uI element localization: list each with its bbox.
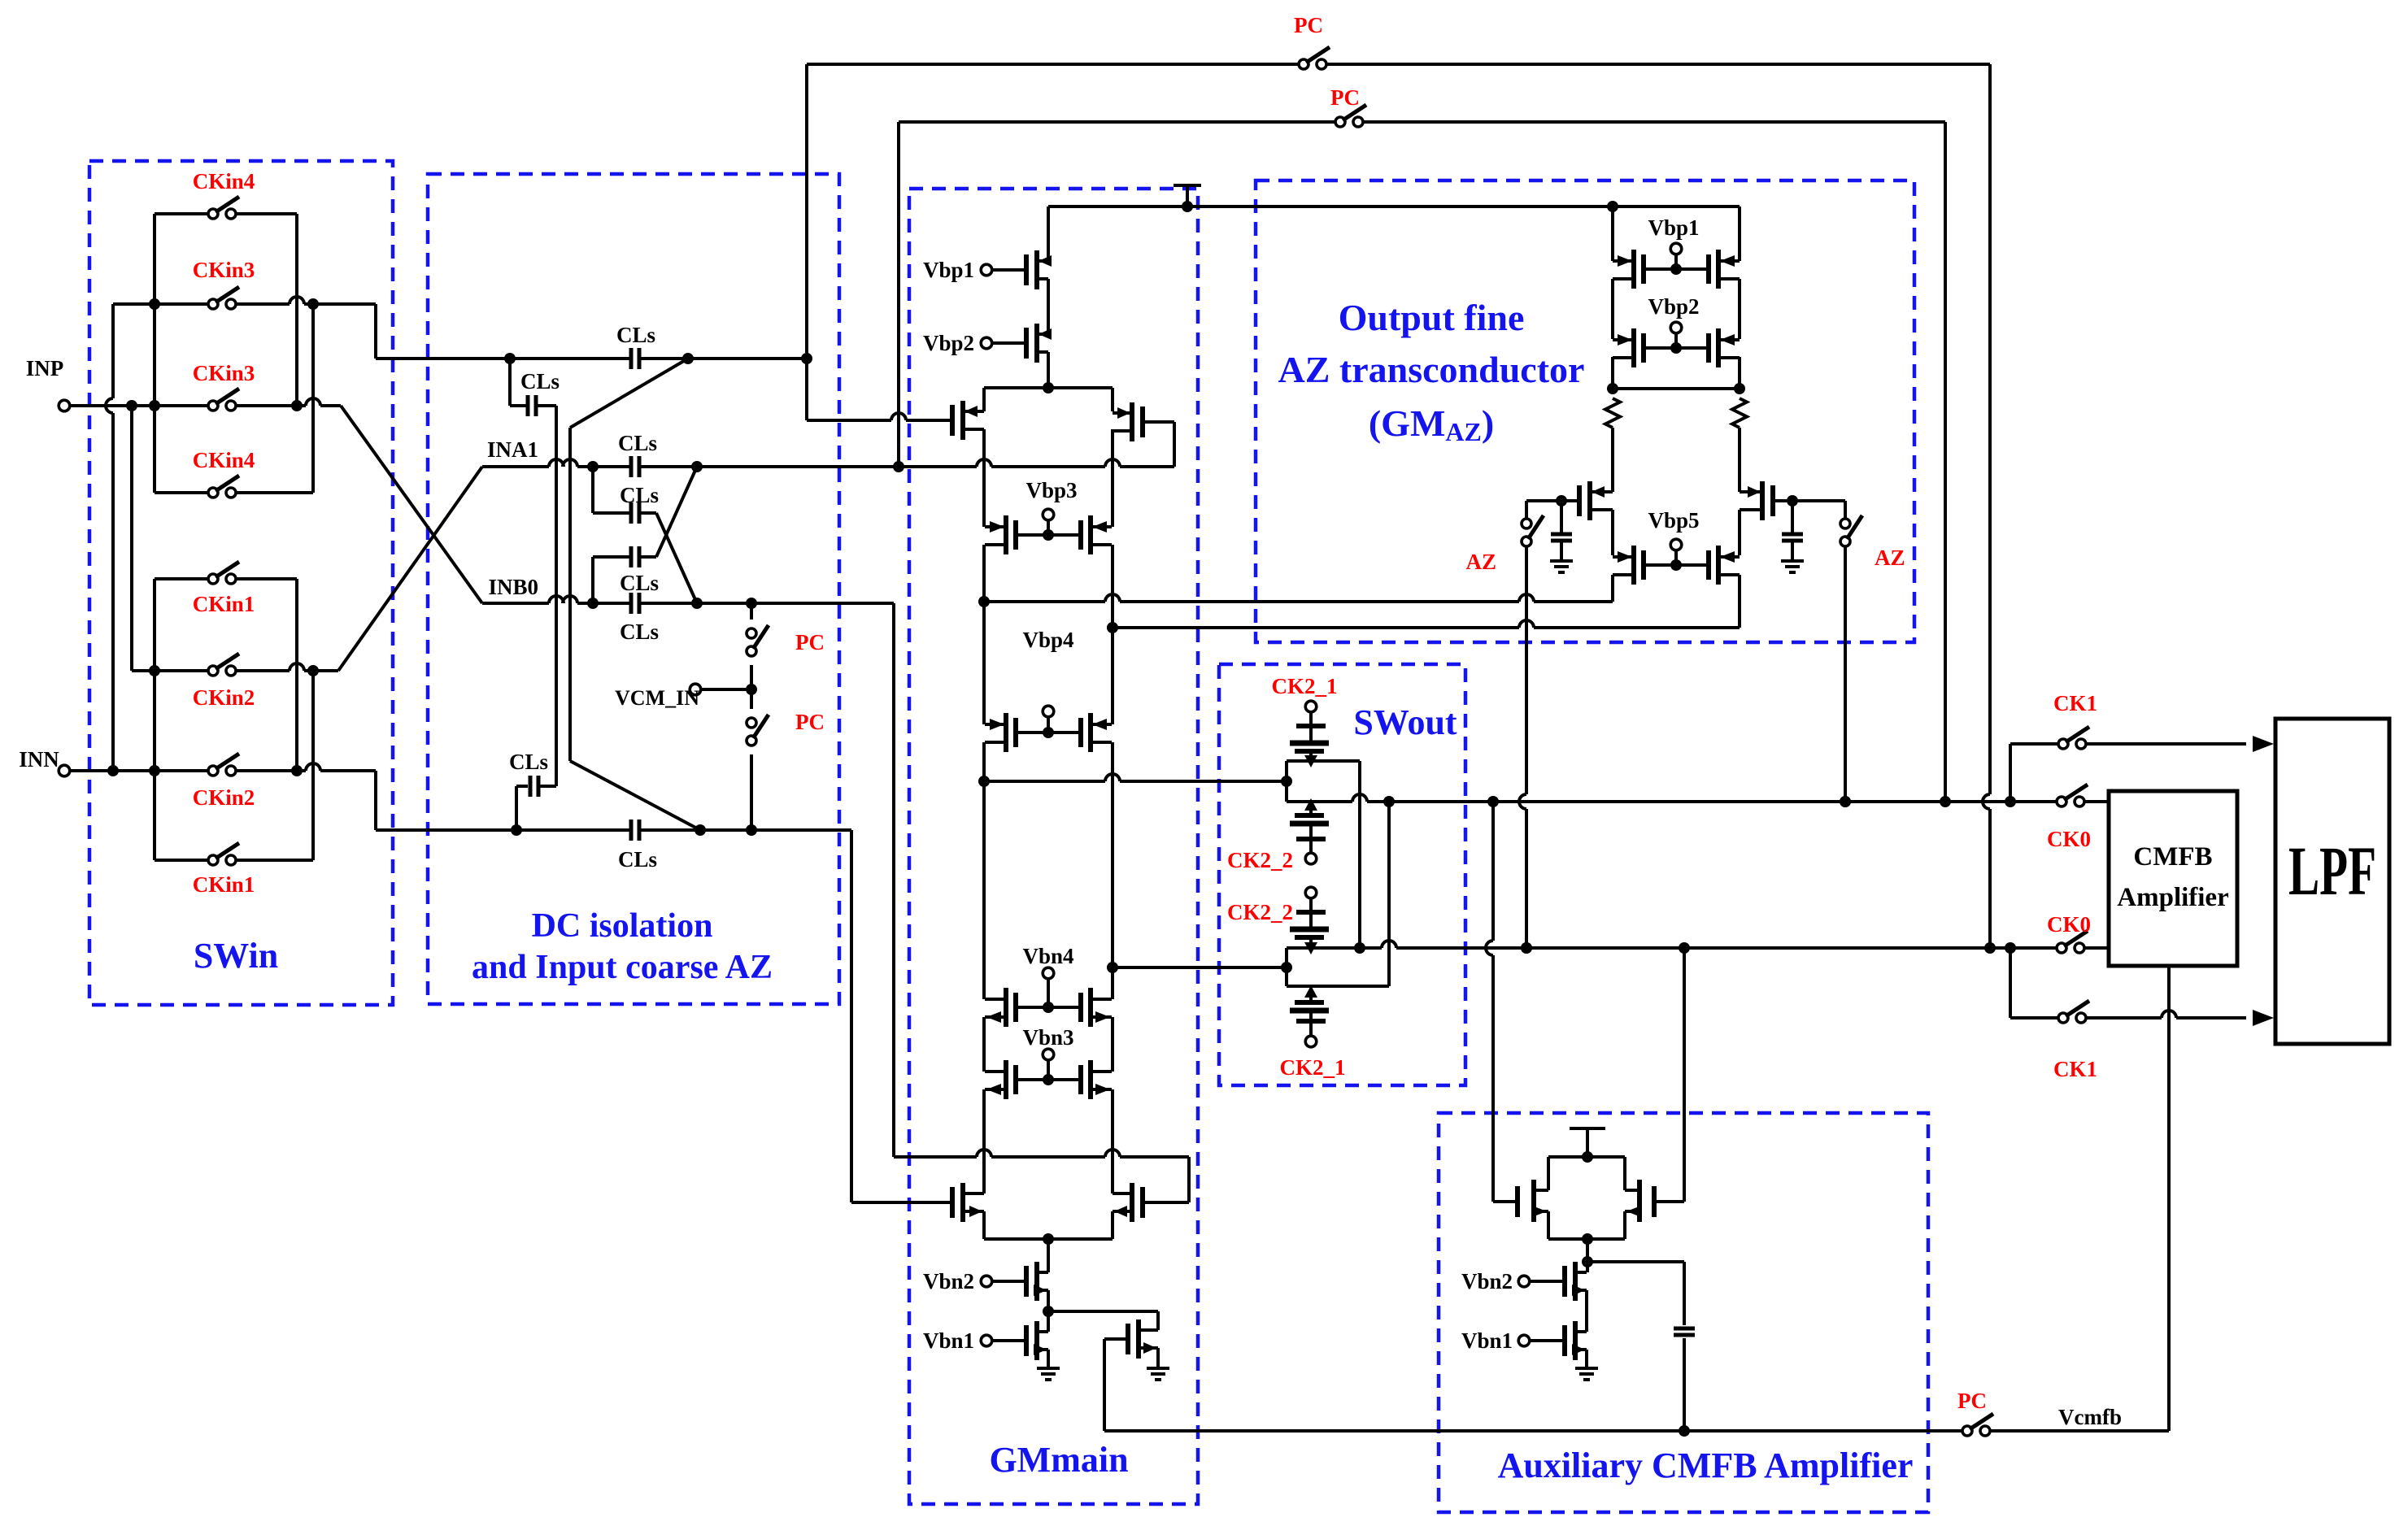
svg-text:CKin3: CKin3 — [193, 258, 255, 282]
svg-text:CK2_2: CK2_2 — [1227, 848, 1293, 872]
svg-text:CK0: CK0 — [2047, 827, 2091, 851]
svg-text:CLs: CLs — [520, 369, 560, 393]
svg-text:Vbp3: Vbp3 — [1025, 478, 1077, 502]
svg-text:CKin1: CKin1 — [193, 872, 255, 897]
svg-text:Output fine: Output fine — [1339, 297, 1525, 338]
svg-text:PC: PC — [1294, 13, 1323, 37]
svg-text:CKin3: CKin3 — [193, 361, 255, 385]
svg-text:Vbp4: Vbp4 — [1022, 628, 1073, 652]
svg-text:INN: INN — [19, 747, 59, 772]
svg-text:Amplifier: Amplifier — [2117, 883, 2228, 912]
svg-text:SWin: SWin — [194, 936, 278, 976]
svg-text:PC: PC — [1957, 1389, 1987, 1413]
svg-text:AZ transconductor: AZ transconductor — [1278, 349, 1585, 390]
svg-text:INB0: INB0 — [488, 575, 538, 599]
svg-text:CK2_1: CK2_1 — [1280, 1055, 1346, 1080]
svg-text:PC: PC — [1330, 85, 1360, 110]
svg-text:Vbn2: Vbn2 — [1461, 1269, 1513, 1293]
svg-text:Vbn2: Vbn2 — [923, 1269, 974, 1293]
svg-text:CLs: CLs — [616, 323, 655, 347]
svg-text:PC: PC — [795, 630, 825, 654]
svg-text:CK1: CK1 — [2053, 1057, 2097, 1081]
svg-text:VCM_IN: VCM_IN — [615, 686, 699, 710]
svg-text:CMFB: CMFB — [2133, 842, 2212, 872]
svg-text:CK0: CK0 — [2047, 912, 2091, 937]
svg-text:Vbp2: Vbp2 — [923, 331, 974, 355]
svg-text:Vbp1: Vbp1 — [923, 258, 974, 282]
svg-text:CKin4: CKin4 — [193, 169, 255, 193]
svg-text:SWout: SWout — [1353, 702, 1457, 742]
svg-text:CK2_1: CK2_1 — [1272, 674, 1338, 698]
svg-text:AZ: AZ — [1875, 546, 1905, 570]
svg-text:CK1: CK1 — [2053, 691, 2097, 715]
svg-text:and Input coarse AZ: and Input coarse AZ — [472, 949, 773, 986]
svg-text:CLs: CLs — [618, 847, 657, 872]
svg-text:Vbn4: Vbn4 — [1022, 944, 1073, 968]
svg-text:Vbp1: Vbp1 — [1648, 215, 1699, 240]
svg-text:Vcmfb: Vcmfb — [2058, 1405, 2122, 1429]
svg-text:Vbn1: Vbn1 — [1461, 1328, 1513, 1353]
svg-text:Vbn3: Vbn3 — [1022, 1025, 1073, 1050]
svg-text:Vbp5: Vbp5 — [1648, 508, 1699, 533]
svg-text:CLs: CLs — [620, 571, 659, 595]
svg-text:LPF: LPF — [2288, 832, 2376, 910]
svg-text:DC isolation: DC isolation — [532, 907, 713, 945]
svg-text:CKin2: CKin2 — [193, 785, 255, 810]
svg-text:CKin2: CKin2 — [193, 685, 255, 710]
svg-text:CLs: CLs — [620, 483, 659, 507]
svg-text:Auxiliary CMFB Amplifier: Auxiliary CMFB Amplifier — [1498, 1446, 1914, 1485]
svg-text:AZ: AZ — [1465, 550, 1496, 574]
svg-text:Vbp2: Vbp2 — [1648, 294, 1699, 319]
svg-text:INP: INP — [26, 356, 64, 380]
svg-text:Vbn1: Vbn1 — [923, 1328, 974, 1353]
svg-text:GMmain: GMmain — [989, 1440, 1128, 1480]
svg-text:CK2_2: CK2_2 — [1227, 900, 1293, 924]
svg-text:CLs: CLs — [509, 750, 548, 774]
svg-text:CKin1: CKin1 — [193, 592, 255, 616]
svg-text:CLs: CLs — [618, 431, 657, 455]
svg-text:CKin4: CKin4 — [193, 448, 255, 472]
svg-text:CLs: CLs — [620, 620, 659, 644]
svg-text:INA1: INA1 — [487, 437, 538, 462]
svg-text:PC: PC — [795, 710, 825, 734]
